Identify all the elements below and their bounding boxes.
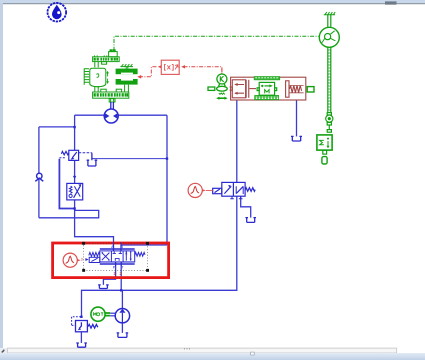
svg-text:1: 1 [113, 271, 116, 276]
svg-text:P: P [113, 265, 116, 269]
svg-text:3: 3 [81, 257, 83, 261]
svg-text:A: A [111, 245, 114, 249]
svg-text:B: B [121, 245, 124, 249]
svg-text:2: 2 [119, 271, 122, 276]
